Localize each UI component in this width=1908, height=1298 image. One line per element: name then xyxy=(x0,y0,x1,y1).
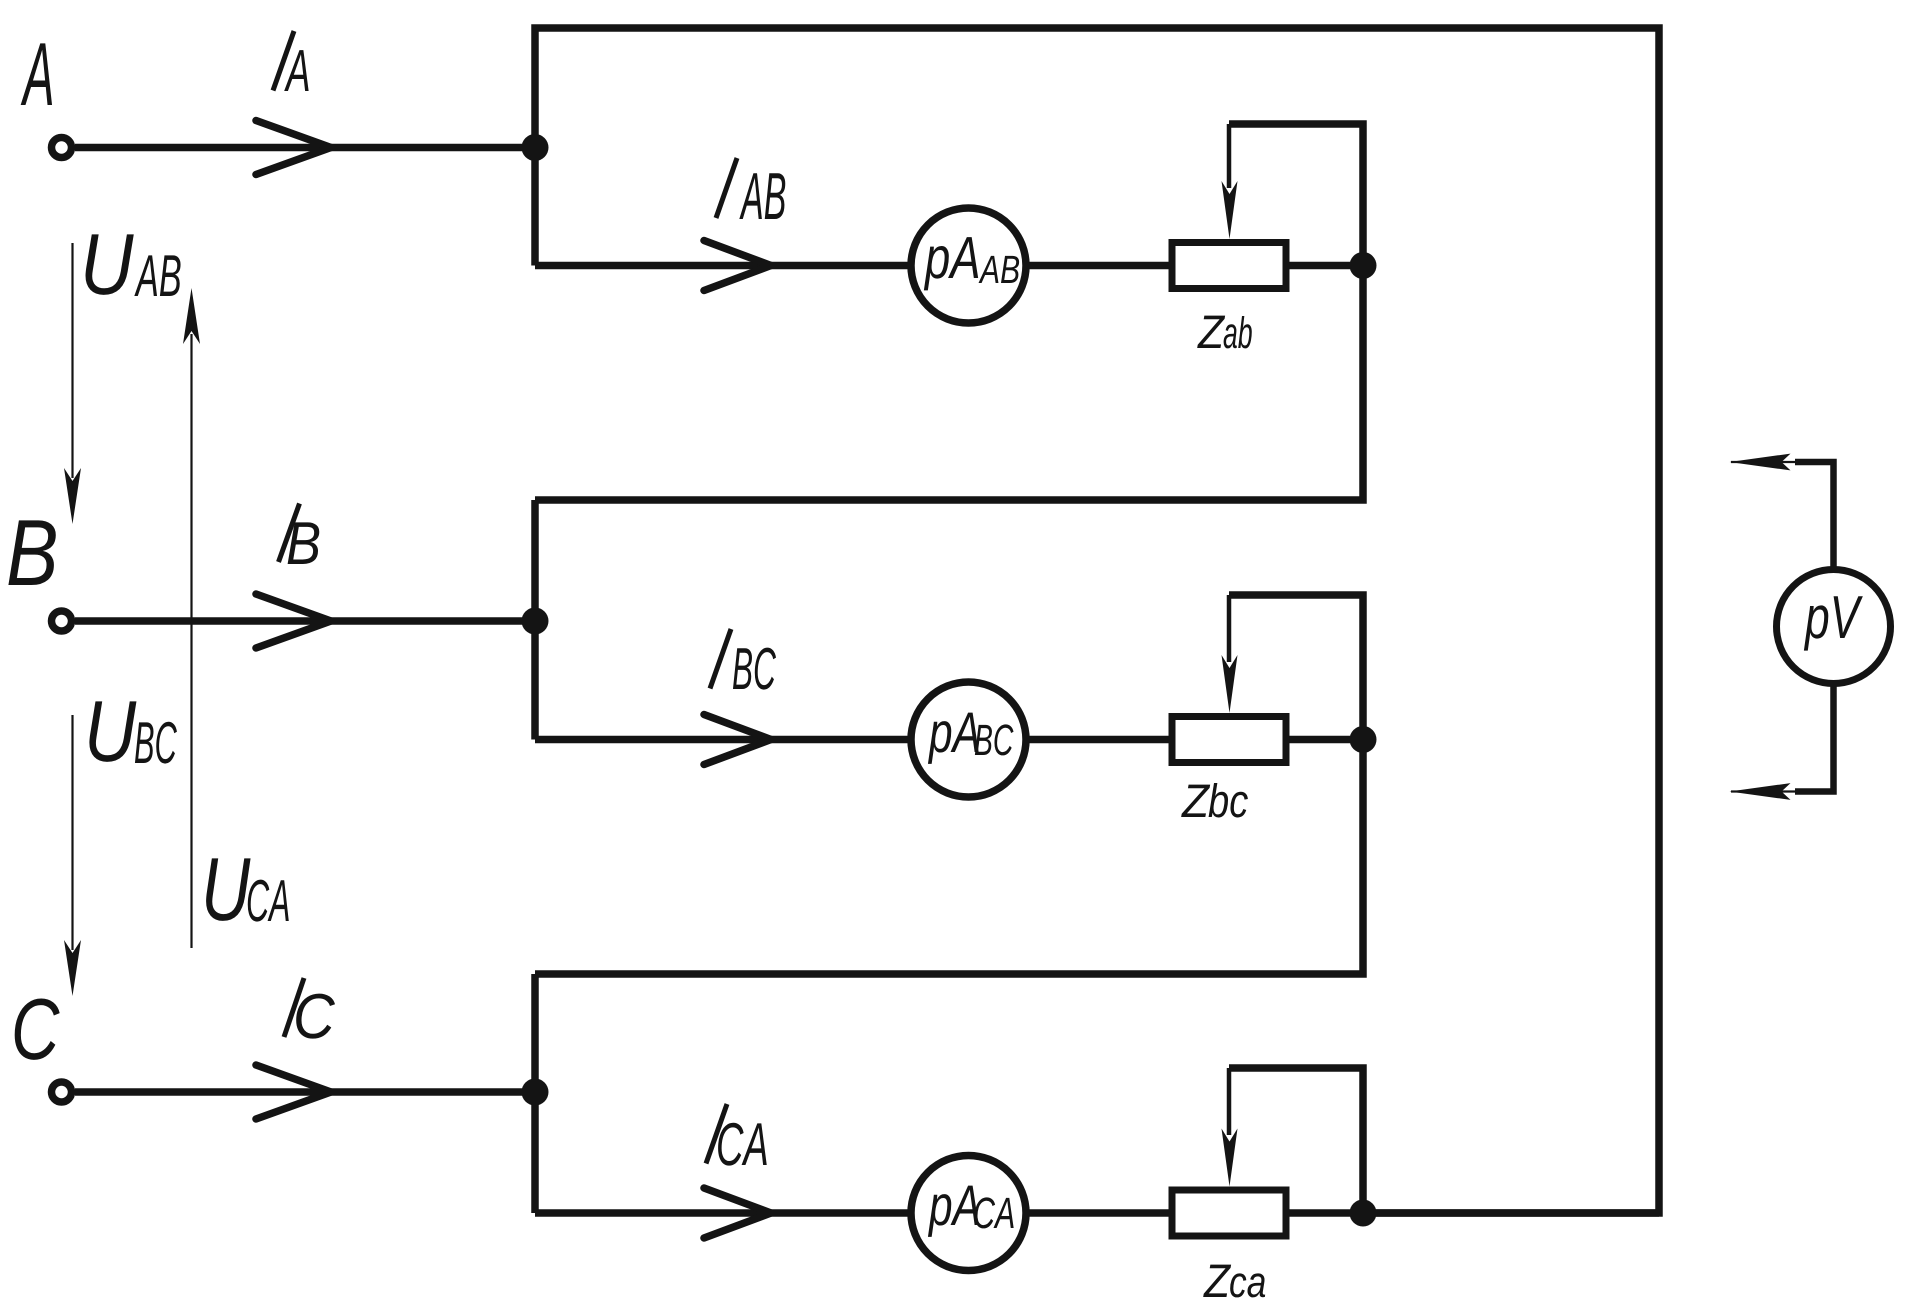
node junction Zab out xyxy=(1350,252,1377,279)
label Zab xyxy=(1197,316,1225,348)
resistor Zab xyxy=(1172,243,1286,289)
current arrow IC xyxy=(256,1065,331,1119)
wire main outer bus (top, right, bottom) xyxy=(535,28,1659,1213)
label Zbc xyxy=(1181,785,1210,817)
label ICA xyxy=(706,1104,727,1164)
wire pV bottom probe line xyxy=(1731,790,1798,792)
label Zca xyxy=(1203,1265,1231,1297)
wire Zca wiper link xyxy=(1229,1068,1363,1213)
voltage line UCA xyxy=(190,334,192,948)
wire phase A xyxy=(75,144,535,152)
wiper stem Zab xyxy=(1227,124,1232,188)
wiper arrow Zca xyxy=(1222,1129,1238,1187)
current arrow IA xyxy=(256,121,331,175)
voltmeter pV xyxy=(1777,570,1891,684)
wire pV top lead xyxy=(1795,462,1834,572)
current arrow IBC xyxy=(704,715,771,765)
wiper arrow Zbc xyxy=(1222,655,1238,713)
wiper arrow Zab xyxy=(1222,181,1238,239)
node junction Zca out xyxy=(1350,1200,1377,1227)
label UBC xyxy=(89,701,136,761)
terminal C xyxy=(52,1082,72,1102)
wire pV bottom lead xyxy=(1795,681,1834,792)
resistor Zca xyxy=(1172,1190,1286,1236)
wire branch AB xyxy=(535,262,1363,270)
wire phase B xyxy=(75,617,535,625)
label C xyxy=(15,999,60,1060)
ammeter pA_CA xyxy=(911,1156,1026,1271)
wire Zab wiper link xyxy=(535,124,1363,500)
voltage arrow UCA xyxy=(183,288,200,344)
label pA_AB xyxy=(924,237,978,290)
label UAB xyxy=(86,234,134,294)
probe arrow pV bottom xyxy=(1730,783,1791,800)
wire Zbc wiper link xyxy=(535,595,1363,974)
voltage arrow UAB xyxy=(64,468,81,524)
label pA_BC xyxy=(928,713,979,764)
current arrow ICA xyxy=(704,1188,771,1238)
voltage line UBC xyxy=(71,715,73,950)
wire loop2 left xyxy=(531,500,539,740)
wire loop3 left xyxy=(531,974,539,1213)
resistor Zbc xyxy=(1172,717,1286,763)
wire branch CA xyxy=(535,1209,1659,1217)
ammeter pA_AB xyxy=(911,208,1026,323)
label UCA xyxy=(206,858,250,921)
label pV xyxy=(1804,596,1863,650)
ammeter pA_BC xyxy=(911,682,1026,797)
node junction Zbc out xyxy=(1350,726,1377,753)
voltage line UAB xyxy=(71,243,73,478)
terminal A xyxy=(52,138,72,158)
label IBC xyxy=(710,629,731,689)
label IC xyxy=(284,978,304,1037)
wire phase C xyxy=(75,1088,535,1096)
node junction C xyxy=(522,1079,549,1106)
label IAB xyxy=(716,158,737,218)
label IA xyxy=(273,31,294,91)
wire pV top probe line xyxy=(1731,461,1798,463)
label pA_CA xyxy=(928,1186,979,1237)
wiper stem Zbc xyxy=(1227,595,1232,662)
label A xyxy=(21,43,52,105)
node junction A xyxy=(522,134,549,161)
current arrow IB xyxy=(256,594,331,648)
voltage arrow UBC xyxy=(64,940,81,996)
label B xyxy=(8,520,55,585)
probe arrow pV top xyxy=(1730,454,1791,471)
wire branch BC xyxy=(535,736,1363,744)
label IB xyxy=(279,504,300,563)
terminal B xyxy=(52,611,72,631)
current arrow IAB xyxy=(704,241,771,291)
node junction B xyxy=(522,608,549,635)
wiper stem Zca xyxy=(1227,1068,1232,1135)
